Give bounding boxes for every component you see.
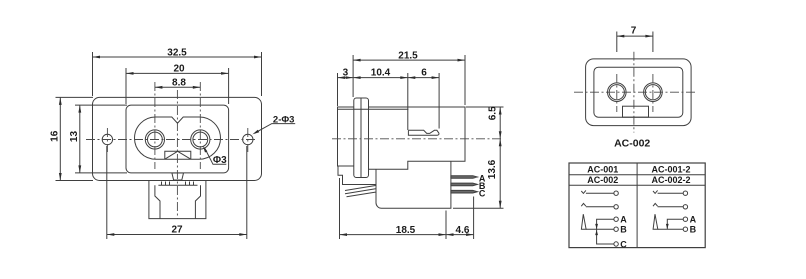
latch spring [408,130,439,133]
center tab [172,173,184,180]
right cell line A [667,219,683,229]
inner raised face [126,105,229,173]
left cell line B [586,228,614,230]
left cell contact 1 check [581,190,586,193]
left cell contact 1 terminal [614,191,618,195]
left cell contact 2 terminal [614,205,618,209]
left cell line C [597,229,614,244]
top view key slot [623,106,649,117]
left cell arrow up [595,230,598,235]
right cell terminal A [683,217,687,221]
svg-text:13.6: 13.6 [487,159,498,179]
dim 21.5 [353,50,465,105]
vertical centerline [176,90,178,219]
right pin centerline [199,82,201,169]
flange inner edge [360,99,362,178]
lower body outline [149,181,206,219]
right mounting hole [243,134,253,144]
left cell contact 2 line [586,206,614,208]
right cell contact 2 terminal [683,205,687,209]
right cell contact 2 caret [653,203,658,206]
svg-text:21.5: 21.5 [398,50,418,61]
left pin centerline [154,82,156,169]
dim 6.5 and 13.6 [453,106,504,208]
table frame [569,163,705,248]
right cell arrow down [666,224,669,229]
left cell terminal C [614,242,618,246]
right cell terminal B [683,227,687,231]
svg-text:B: B [620,225,627,235]
horizontal centerline [86,139,257,141]
svg-text:A: A [690,215,697,225]
svg-text:C: C [620,239,627,249]
top view left pin outer [608,83,627,102]
label phi3 [203,146,227,166]
top view right pin inner [645,85,660,100]
svg-text:8.8: 8.8 [172,77,186,88]
dim 27 [107,146,247,239]
protrusion step [338,166,343,185]
dim chain 3 10.4 6 [338,68,440,130]
right cell contact 1 line [658,192,684,194]
dim 13 [69,105,127,173]
top view left pin inner [609,85,624,100]
main body [369,107,466,169]
svg-text:18.5: 18.5 [396,225,416,236]
svg-text:AC-002: AC-002 [587,175,618,185]
left cell terminal A [614,217,618,221]
left cell arrow down [595,224,598,229]
left pin inner [148,132,163,147]
left cell line A [597,219,614,229]
terminal pin B [451,183,478,186]
top view vertical centerline [633,52,635,133]
lower body rim line [158,184,197,186]
svg-text:7: 7 [631,25,637,36]
top view pin centerlines [617,74,653,112]
top view horizontal centerline [574,91,698,93]
svg-text:AC-002: AC-002 [614,138,650,150]
svg-text:3: 3 [343,68,349,79]
left cell contact 1 line [586,192,614,194]
svg-text:20: 20 [173,64,185,75]
recess key chevron [165,151,191,159]
svg-text:32.5: 32.5 [167,47,187,58]
svg-text:AC-001: AC-001 [587,165,618,175]
left pin outer [145,130,164,149]
figure-8 recess outline [135,117,221,159]
top view inner face [594,67,683,117]
front plate outline [93,97,262,180]
right cell contact 1 check [653,190,658,193]
top view right pin outer [644,83,663,102]
right cell contact 2 line [658,206,684,208]
right pin outer [191,130,210,149]
right pin inner [193,132,208,147]
svg-text:4.6: 4.6 [456,225,470,236]
dim 16 [50,97,94,180]
dim 8.8 [155,77,200,88]
lower housing [376,161,451,208]
lower body cup [155,185,201,218]
side centerline [332,138,504,140]
right cell contact 1 terminal [683,191,687,195]
header line 1 [569,174,705,176]
svg-text:10.4: 10.4 [371,68,391,79]
svg-text:AC-002-2: AC-002-2 [651,175,690,185]
dim 20 [126,64,229,105]
front protrusion [338,107,354,166]
svg-text:C: C [479,188,486,198]
header line 2 [569,184,705,186]
body top inner line [338,108,409,110]
svg-text:6.5: 6.5 [488,106,499,120]
left cell contact 2 caret [581,203,586,206]
top view outer body [586,59,692,126]
terminal pin C [451,190,478,193]
terminal pin A [451,176,478,179]
rim ticks [162,182,194,186]
label 2-phi3 [252,114,295,134]
svg-text:AC-001-2: AC-001-2 [651,165,690,175]
solder lugs [345,186,376,197]
left cell terminal B [614,227,618,231]
dim 32.5 [93,47,262,96]
svg-text:27: 27 [171,225,183,236]
flange [354,98,369,178]
dim 18.5 and 4.6 [340,178,474,239]
left cell blade triangle [581,214,586,229]
svg-text:6: 6 [421,68,427,79]
left hole centerline [106,128,108,152]
right hole centerline [247,128,249,152]
right cell line B [658,228,683,230]
right cell blade triangle [653,214,658,229]
dim 7 [617,25,653,52]
left mounting hole [102,134,112,144]
svg-text:B: B [690,225,697,235]
svg-text:13: 13 [69,131,80,143]
solder lug plate [342,184,376,186]
svg-text:A: A [620,215,627,225]
recess key rectangle [165,151,191,159]
column divider [636,163,638,248]
svg-text:16: 16 [50,130,61,142]
latch spring lower edge [408,130,439,135]
